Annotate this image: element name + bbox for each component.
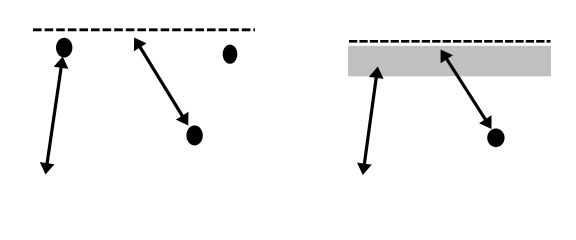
right diagram: gray band (near-surface region) [348,46,551,77]
right diagram: atom dot D (lower right) [487,129,504,148]
right diagram: double-headed arrow 4 (band to dot D) [441,50,492,130]
left diagram: atom dot B (lower middle) [186,125,202,145]
left diagram: dashed surface line [33,28,255,31]
left diagram: atom dot C (upper right, free) [223,45,238,64]
left diagram: double-headed arrow 1 (dot A to lower left) [40,57,69,175]
right diagram: dashed surface line [349,40,551,43]
left diagram: double-headed arrow 2 (surface line to dot B) [134,38,189,126]
left diagram: atom dot A (below surface line) [56,38,72,58]
right diagram: double-headed arrow 3 (band to lower left) [357,67,384,176]
